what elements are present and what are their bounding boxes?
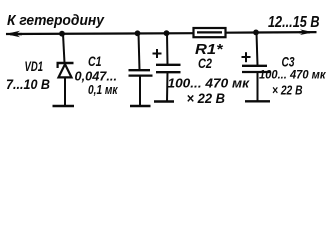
svg-text:C1: C1 bbox=[88, 53, 102, 69]
diode VD1 zener bbox=[57, 63, 74, 77]
svg-text:× 22 В: × 22 В bbox=[187, 91, 226, 106]
wire top rail right segment bbox=[225, 31, 317, 34]
ground VD1 bbox=[53, 105, 75, 107]
node right arrow 12-15V bbox=[300, 29, 314, 35]
node junction C2 bbox=[164, 30, 170, 36]
wire C3 bottom lead bbox=[257, 72, 259, 101]
ground C2 bbox=[154, 100, 174, 102]
capacitor C2 polarized bbox=[153, 49, 181, 72]
svg-text:0,1 мк: 0,1 мк bbox=[88, 82, 119, 97]
svg-text:× 22 В: × 22 В bbox=[272, 82, 303, 97]
wire C1 bottom lead bbox=[139, 76, 141, 106]
svg-text:7...10 В: 7...10 В bbox=[6, 77, 50, 92]
svg-text:C2: C2 bbox=[198, 55, 212, 71]
node left arrow to heterodyne bbox=[6, 31, 21, 37]
node junction C1 bbox=[135, 30, 141, 36]
ground C3 bbox=[245, 100, 270, 102]
svg-text:100... 470 мк: 100... 470 мк bbox=[259, 67, 326, 81]
node junction VD1 bbox=[59, 31, 65, 37]
wire C2 bottom lead bbox=[166, 72, 169, 101]
node junction C3 bbox=[253, 30, 259, 36]
wire C2 top lead bbox=[166, 33, 169, 65]
svg-text:12...15 В: 12...15 В bbox=[268, 14, 320, 31]
capacitor C1 bbox=[129, 70, 153, 75]
resistor R1 bbox=[194, 28, 226, 58]
wire VD1 bottom lead bbox=[64, 77, 66, 105]
svg-text:VD1: VD1 bbox=[25, 59, 44, 74]
ground C1 bbox=[130, 105, 151, 107]
svg-text:К гетеродину: К гетеродину bbox=[7, 12, 105, 29]
svg-text:100... 470 мк: 100... 470 мк bbox=[168, 76, 250, 90]
capacitor C3 polarized bbox=[242, 52, 271, 72]
wire top rail left segment bbox=[6, 32, 194, 35]
wire VD1 top lead bbox=[63, 34, 65, 63]
wire C1 top lead bbox=[139, 33, 140, 70]
wire C3 top lead bbox=[257, 32, 258, 65]
